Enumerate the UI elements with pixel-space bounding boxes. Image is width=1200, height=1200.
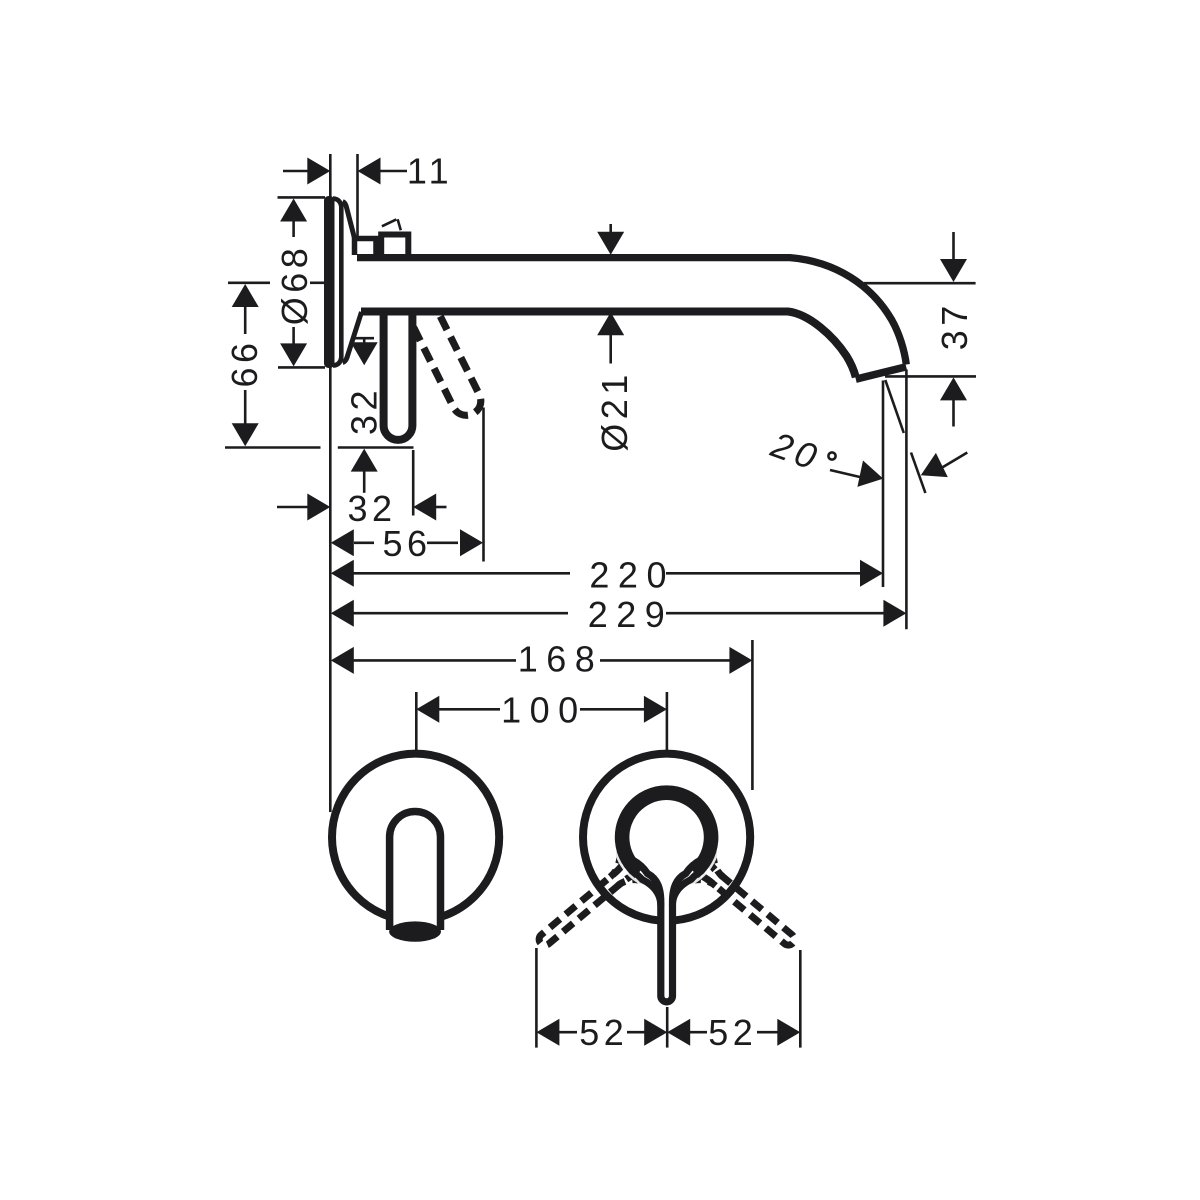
svg-text:37: 37 — [934, 301, 975, 350]
handle stem outer flare right — [672, 870, 703, 906]
cartridge block small — [355, 239, 377, 256]
extension line O68 bottom y=367.4 — [278, 366, 325, 369]
dim 229 line — [331, 600, 354, 627]
dim O68 arrow down — [292, 327, 295, 345]
dim O21 upper arrow — [609, 224, 612, 235]
svg-text:168: 168 — [518, 638, 604, 679]
svg-text:229: 229 — [588, 594, 674, 635]
extension line 168 right x=752.4 — [751, 640, 754, 790]
handle stem white silhouette — [640, 860, 693, 1001]
dim 52 right — [667, 1019, 690, 1046]
dim 11 leader left — [283, 170, 310, 173]
dim 37 upper arrow — [952, 232, 955, 262]
escutcheon circle left (front view) — [332, 754, 499, 921]
arrow 11 right (points left) — [358, 158, 381, 185]
arrow 56 left (points left) — [331, 529, 354, 556]
cartridge block large — [381, 235, 408, 256]
spout front view U tube — [390, 811, 441, 930]
handle lever stem front view — [633, 860, 701, 1002]
plate cone taper top — [343, 202, 359, 253]
handle dashed right position — [661, 824, 816, 971]
20 deg leader right — [938, 453, 967, 471]
reference line 37 bottom y=376.4 — [885, 375, 976, 378]
svg-text:Ø21: Ø21 — [594, 370, 635, 452]
extension line 52 mid x=667.2 — [666, 1007, 669, 1048]
dim 100 — [415, 692, 418, 751]
spout tube top edge — [357, 258, 906, 365]
plate cone taper bottom — [343, 312, 362, 363]
dim 11 leader right — [380, 170, 408, 173]
svg-text:56: 56 — [382, 523, 431, 564]
svg-text:32: 32 — [344, 386, 385, 435]
escutcheon plate back bar — [324, 196, 335, 368]
arrow 32v top (points down) — [351, 342, 378, 365]
handle stem outer flare left — [630, 870, 661, 906]
handle dashed left position — [517, 824, 672, 971]
20 deg degree symbol — [828, 452, 835, 459]
extension line 66 bottom y=447.5 — [225, 446, 321, 449]
dim 66 arrow down — [244, 390, 247, 425]
dim O21 lower arrow — [597, 312, 624, 335]
extension line x=906.4 (229) — [905, 370, 908, 630]
dim 66 arrow up — [232, 284, 259, 307]
dim 32h leader right — [435, 506, 446, 509]
extension line x=413.2 — [412, 450, 415, 516]
handle rosette ring band — [622, 793, 711, 873]
dim 32 horizontal leader left — [277, 506, 309, 509]
extension line O68 top y=197.4 — [278, 196, 326, 199]
screw tick diagonal — [382, 219, 396, 226]
wire extension line x=357.5 (11 dim right) — [356, 154, 359, 243]
extension line 66 top y=282.8 — [228, 281, 270, 284]
svg-text:66: 66 — [224, 338, 265, 387]
20 deg tilted line upper — [885, 380, 904, 433]
svg-text:52: 52 — [579, 1012, 628, 1053]
arrow 56 right (points right) — [427, 541, 458, 544]
handle lever solid side view — [384, 313, 413, 440]
extension line 52 left x=536.4 — [535, 948, 538, 1048]
escutcheon plate front face — [333, 198, 341, 365]
reference line 37 top y=283.2 — [864, 282, 976, 285]
svg-text:11: 11 — [407, 151, 453, 192]
svg-text:52: 52 — [708, 1012, 757, 1053]
screw tick small — [398, 219, 401, 230]
svg-text:220: 220 — [589, 554, 675, 595]
dim 168 line — [331, 647, 354, 674]
wire extension line wall face x=330.3 — [329, 154, 332, 812]
tube interior white — [362, 261, 662, 307]
svg-text:Ø68: Ø68 — [274, 244, 315, 326]
spout outlet ellipse — [389, 921, 441, 941]
20 deg arrow left (points right) — [857, 461, 883, 487]
dim 32 vertical T bar — [355, 337, 375, 340]
20 deg leader left — [830, 470, 862, 478]
arrow 11 left (points right) — [307, 158, 330, 185]
extension line x=883 (220) — [882, 381, 885, 588]
handle lever dashed (rotated position) — [403, 294, 485, 420]
svg-text:100: 100 — [501, 689, 587, 730]
spout tube bottom edge — [361, 312, 856, 378]
20 deg tilted line lower — [911, 453, 925, 494]
20 deg arrow right (points left) — [921, 453, 948, 477]
arrow 32h left (points right) — [307, 494, 330, 521]
arrow 32h right (points left) — [413, 494, 436, 521]
spout outlet face — [856, 367, 906, 379]
dim 220 line — [331, 560, 354, 587]
extension line x=483.5 (56 right) — [482, 408, 485, 562]
arrow 32v bottom (points up) — [351, 449, 378, 472]
dim 37 lower arrow — [940, 377, 967, 400]
dim O68 arrow up — [280, 199, 307, 222]
escutcheon circle right (front view) — [583, 754, 750, 921]
extension line 52 right x=800.3 — [799, 950, 802, 1048]
dim 52 left — [536, 1019, 559, 1046]
